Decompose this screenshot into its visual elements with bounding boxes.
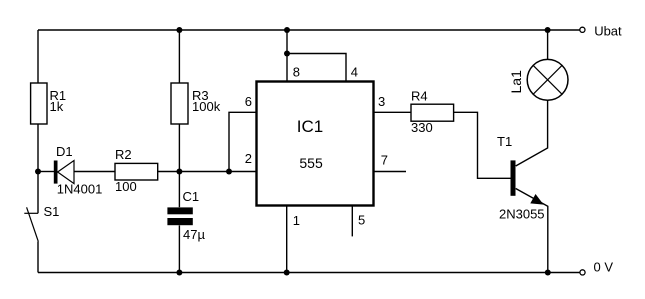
node junction C1 bottom [176, 270, 182, 276]
node junction pin1 bottom [284, 270, 290, 276]
node junction top pin8 [284, 27, 290, 33]
svg-text:4: 4 [351, 65, 358, 80]
transistor Q1 T1 2N3055 [497, 134, 545, 222]
wire R3 bottom [178, 124, 180, 172]
svg-text:IC1: IC1 [297, 117, 323, 136]
resistor R2 [115, 147, 158, 194]
svg-text:3: 3 [378, 94, 385, 109]
resistor R1 [31, 83, 67, 124]
wire R4 to base [454, 112, 511, 178]
svg-text:0 V: 0 V [594, 260, 614, 275]
svg-text:R4: R4 [411, 89, 428, 104]
terminal 0V [580, 260, 613, 275]
svg-text:100: 100 [115, 179, 137, 194]
svg-text:La1: La1 [508, 70, 524, 94]
node junction top lamp [545, 27, 551, 33]
wire pin8 to rail [286, 30, 288, 82]
wire R2 to pin2 [158, 171, 257, 173]
svg-text:6: 6 [245, 94, 252, 109]
resistor R4 [411, 89, 454, 136]
svg-text:C1: C1 [183, 189, 200, 204]
svg-text:555: 555 [299, 155, 323, 171]
node junction R1 D1 S1 [35, 169, 41, 175]
wire S1 top [37, 172, 39, 214]
wire R1 bottom [37, 124, 39, 172]
svg-text:T1: T1 [497, 134, 512, 149]
svg-text:Ubat: Ubat [594, 23, 622, 38]
svg-text:2: 2 [245, 151, 252, 166]
node junction emitter bottom [545, 270, 551, 276]
wire C1 top [178, 172, 180, 208]
svg-text:S1: S1 [44, 204, 60, 219]
wire pin3 to R4 [374, 111, 412, 113]
wire pin5 stub [351, 206, 353, 237]
wire pin7 stub [374, 171, 407, 173]
svg-text:7: 7 [381, 153, 388, 168]
switch S1 blade [27, 207, 39, 241]
node junction pin6 pin2 [226, 169, 232, 175]
svg-text:1: 1 [293, 213, 300, 228]
svg-text:R2: R2 [115, 147, 132, 162]
diode D1 [54, 144, 103, 197]
svg-text:1N4001: 1N4001 [57, 182, 103, 197]
wire node to D1 [38, 171, 54, 173]
lamp La1 [508, 59, 568, 100]
wire C1 bottom [178, 225, 180, 272]
node junction pin8 bridge [284, 51, 290, 57]
svg-text:47µ: 47µ [183, 227, 205, 242]
node junction R2 R3 C1 [176, 169, 182, 175]
wire S1 bottom [37, 242, 39, 273]
wire collector [516, 100, 548, 166]
wire top rail Ubat [38, 29, 580, 31]
svg-text:5: 5 [358, 213, 365, 228]
node junction top R3 [176, 27, 182, 33]
wire pin1 to rail [286, 206, 288, 273]
wire D1 to R2 [74, 171, 115, 173]
switch S1 contact tick [24, 212, 38, 214]
svg-text:8: 8 [293, 65, 300, 80]
svg-text:330: 330 [411, 120, 433, 135]
wire pin8-pin4 bridge [287, 54, 346, 82]
wire bottom rail 0V [38, 272, 580, 274]
svg-text:1k: 1k [50, 99, 64, 114]
resistor R3 [171, 83, 221, 124]
wire lamp top drop [547, 30, 549, 60]
wire R3 top drop [178, 30, 180, 83]
terminal Ubat [580, 23, 622, 38]
capacitor C1 [167, 189, 205, 242]
op-amp-box IC1 555 [245, 65, 388, 228]
svg-text:100k: 100k [192, 99, 221, 114]
svg-text:D1: D1 [56, 144, 73, 159]
wire R1 top drop [37, 30, 39, 83]
wire pin6 vertical [229, 112, 257, 171]
svg-text:2N3055: 2N3055 [499, 207, 545, 222]
wire emitter [516, 189, 548, 273]
